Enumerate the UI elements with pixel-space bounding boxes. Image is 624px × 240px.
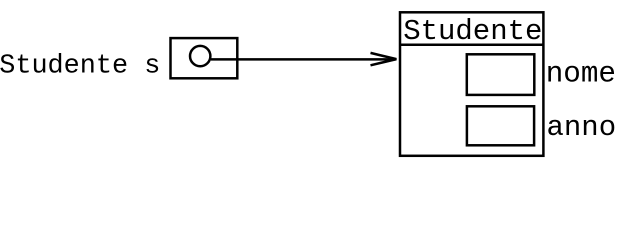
object box Studente: [400, 12, 543, 156]
field box nome: [467, 54, 535, 95]
reference variable box: [171, 38, 238, 78]
svg-text:Studente: Studente: [403, 15, 542, 48]
reference circle: [190, 46, 210, 66]
separator line under class name: [400, 44, 543, 47]
field box anno: [467, 106, 534, 145]
arrowhead: [371, 53, 397, 65]
svg-text:anno: anno: [547, 111, 617, 144]
wire: arrow shaft from circle to object box: [211, 58, 396, 61]
svg-text:Studente s: Studente s: [0, 52, 160, 82]
svg-text:nome: nome: [546, 58, 616, 91]
